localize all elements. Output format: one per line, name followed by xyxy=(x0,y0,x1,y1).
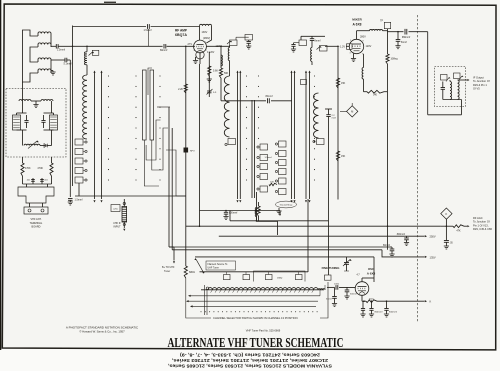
label -1.2V xyxy=(339,45,346,48)
tube V1 electrodes xyxy=(197,45,204,49)
svg-text:M: M xyxy=(351,110,353,114)
wire bank4 rail D xyxy=(308,71,310,203)
label RF AMP 6BQ7A xyxy=(175,29,188,37)
label IF output xyxy=(473,76,490,91)
capacitor C7 trap right xyxy=(41,113,53,130)
svg-text:R29 & Pin 1: R29 & Pin 1 xyxy=(473,83,487,87)
svg-text:5.6K: 5.6K xyxy=(213,70,218,73)
wire IF bottom bus xyxy=(428,32,462,115)
selector top bus xyxy=(200,271,309,273)
coil L4 balun winding 4 xyxy=(38,69,51,73)
wire bank1 rail A xyxy=(93,71,95,203)
coil L26 taps xyxy=(211,290,314,293)
svg-text:To Junction Of: To Junction Of xyxy=(473,79,490,83)
svg-text:R29, C45 & C86: R29, C45 & C86 xyxy=(473,227,492,231)
wire V1 plate to neut xyxy=(206,46,230,48)
wire neut link xyxy=(236,37,249,40)
resistor R4 5.6K xyxy=(208,66,219,76)
svg-text:TERMINAL: TERMINAL xyxy=(30,222,43,225)
contact dots column 1 xyxy=(108,75,109,180)
svg-text:30mmf: 30mmf xyxy=(350,294,357,296)
page scan tick top xyxy=(104,2,116,3)
switch contact A17 xyxy=(225,139,236,146)
coil L15 interstage xyxy=(221,55,222,66)
dashed separator line xyxy=(417,15,419,322)
resistor R3 2.2K xyxy=(178,84,187,93)
svg-text:ALTERNATE VHF TUNER SCHEMATIC: ALTERNATE VHF TUNER SCHEMATIC xyxy=(168,336,344,351)
selector contact dots row xyxy=(201,311,318,312)
wire bus y249.8 xyxy=(172,249,382,251)
wire bank4 rail B xyxy=(293,71,295,203)
svg-text:K: K xyxy=(430,300,432,304)
resistor R1 470K xyxy=(21,157,31,176)
svg-text:80mmf: 80mmf xyxy=(265,96,272,98)
switch contact A6 xyxy=(441,75,451,82)
wire bank2 rail A xyxy=(168,107,170,247)
resistor R9 15K lower xyxy=(336,151,345,161)
wire x328.5 vertical xyxy=(328,221,330,275)
svg-text:800mmf: 800mmf xyxy=(389,311,397,313)
coil L27 osc end xyxy=(318,285,325,290)
capacitor C14 2.2mmf xyxy=(325,109,336,221)
wire vertical x72.5 xyxy=(72,26,74,187)
contact dots column 4 xyxy=(246,75,247,180)
svg-text:VHF Tuner Part No. 525-0669: VHF Tuner Part No. 525-0669 xyxy=(246,329,281,333)
IF transformer dashed box xyxy=(435,67,466,107)
svg-text:1000: 1000 xyxy=(334,284,340,286)
switch S1A contact boxes xyxy=(75,139,87,183)
label 4.7 xyxy=(357,274,361,276)
wire V2 plate up xyxy=(356,31,358,40)
label photofact line1 xyxy=(66,326,139,330)
switch S2 contact boxes left column xyxy=(257,144,268,192)
wire main vertical x186 xyxy=(185,46,187,259)
capacitor C2 5.1mmf xyxy=(55,58,72,66)
svg-text:250V: 250V xyxy=(430,235,436,239)
svg-text:BOARD: BOARD xyxy=(32,226,41,229)
capacitor C18 800mmf fil xyxy=(223,211,237,220)
wire agc bus y226.2 xyxy=(186,225,441,227)
selector wiper xyxy=(205,285,209,315)
svg-text:680mmf: 680mmf xyxy=(402,37,411,39)
svg-text:8mmf: 8mmf xyxy=(315,40,321,43)
selector arrow 3 xyxy=(190,305,316,307)
switch contact A10 xyxy=(299,40,307,46)
svg-text:1.5mmf: 1.5mmf xyxy=(265,157,272,159)
capacitor C4 1.5mmf on agc bus xyxy=(144,24,152,47)
coil L18 plate choke xyxy=(200,24,212,43)
wire K to bus xyxy=(441,219,447,228)
wire mixer output y31.7 xyxy=(383,31,428,33)
coil L8 trap tank right xyxy=(50,115,58,130)
wire B+ UHF arrow xyxy=(169,247,175,264)
capacitor C26 600mmf xyxy=(360,301,365,317)
coil L17 osc ladder xyxy=(314,93,319,138)
trap dashed box xyxy=(6,89,66,158)
resistor R14 1000 osc xyxy=(362,295,432,303)
label filament source box xyxy=(206,261,236,270)
svg-text:−1.2V: −1.2V xyxy=(339,45,346,48)
svg-text:0 120V: 0 120V xyxy=(207,52,215,54)
svg-text:680Ω: 680Ω xyxy=(189,271,195,274)
svg-text:10K: 10K xyxy=(270,182,274,184)
svg-text:UHF IF: UHF IF xyxy=(113,222,121,225)
coil L19 neut xyxy=(228,46,229,70)
ground V1 cathode xyxy=(193,57,198,64)
svg-text:A 6X8: A 6X8 xyxy=(352,22,361,26)
tube V3 OSC 6X8 envelope xyxy=(355,282,369,296)
ground balun xyxy=(50,71,55,76)
capacitor C8 1000mmf cluster xyxy=(23,176,52,184)
wire trap verticals xyxy=(23,82,52,146)
page scan edge left xyxy=(0,0,1,350)
wire x221 with top coil xyxy=(220,46,222,69)
svg-text:.001: .001 xyxy=(44,179,48,181)
svg-text:5mmf: 5mmf xyxy=(326,299,332,301)
svg-text:OSC: OSC xyxy=(368,267,374,271)
ground trap center xyxy=(31,101,41,108)
wire IF out arrow xyxy=(458,79,470,81)
wire filament bus y210.5 xyxy=(200,211,282,217)
switch contact A26 xyxy=(224,272,231,280)
svg-text:B+ TO UHF: B+ TO UHF xyxy=(162,266,175,269)
pin numbers V2 xyxy=(350,40,365,56)
wire bus y247 xyxy=(169,246,390,248)
svg-text:FINE TUNING: FINE TUNING xyxy=(322,266,340,270)
test point TP box xyxy=(380,21,391,32)
svg-text:MIXER: MIXER xyxy=(352,18,362,22)
svg-text:NPO: NPO xyxy=(190,151,195,153)
wire bank4 rail A xyxy=(290,71,292,203)
capacitor C9 trimmer 3-9 xyxy=(207,89,217,95)
contact dots column 5 xyxy=(314,75,315,180)
label RF AGC xyxy=(473,216,492,231)
diode trap arrow xyxy=(40,144,52,148)
capacitor C5 1.5mmf bottom with ground xyxy=(68,199,83,206)
wire bank4 rail C xyxy=(305,71,307,203)
svg-text:180Ω: 180Ω xyxy=(277,278,283,280)
wire balun right taps xyxy=(51,36,55,71)
svg-text:8mmf: 8mmf xyxy=(401,42,407,44)
label sylvania models rotated xyxy=(167,352,332,369)
resistor R10 10Meg xyxy=(386,32,398,92)
capacitor C27 800mmf xyxy=(384,300,397,317)
coil L24 IF secondary xyxy=(458,80,460,100)
coil L6 trap top-right xyxy=(41,100,53,102)
label 120V V1 xyxy=(216,45,222,48)
coil L13 slab form left xyxy=(143,70,147,140)
label (280V) xyxy=(203,37,210,40)
wire osc K junction xyxy=(363,300,365,302)
svg-text:INPUT: INPUT xyxy=(113,226,121,229)
switch contact A4 xyxy=(313,139,324,145)
switch contact A28 xyxy=(266,272,283,280)
resistor R6 10K padder xyxy=(269,182,277,186)
wire UHF IF arrow xyxy=(123,222,125,231)
wire screen vertical x209 xyxy=(208,52,210,97)
tube V2 grid box xyxy=(347,44,353,50)
label 120V V2 xyxy=(366,45,372,48)
capacitor C17 IF xyxy=(441,82,445,100)
svg-text:1.5mmf: 1.5mmf xyxy=(57,49,65,52)
label 27V xyxy=(188,43,193,46)
capacitor C26b 800mmf xyxy=(369,300,383,317)
svg-text:280V: 280V xyxy=(360,36,366,39)
switch arm filament xyxy=(194,258,204,273)
node M diamond xyxy=(340,103,358,117)
capacitor C25 5mmf xyxy=(326,287,337,306)
selector arrow 2 xyxy=(186,300,318,302)
capacitor C11 neut xyxy=(246,40,251,49)
wire bank2 jogs xyxy=(144,68,186,196)
contact dots column 2 xyxy=(135,75,136,180)
wire y100.8 coupling xyxy=(221,100,292,102)
switch contact A19 small box xyxy=(301,80,307,85)
svg-text:RF AGC: RF AGC xyxy=(473,216,483,220)
wire rail x254.5 xyxy=(254,100,256,198)
wire bus y220.8 xyxy=(230,211,329,222)
switch S2 contact boxes right column xyxy=(275,141,286,195)
wire bank1 bottom xyxy=(75,183,186,196)
coil L7 trap tank left xyxy=(13,115,21,130)
thermistor blob xyxy=(184,148,196,153)
wire mixer grid bus xyxy=(325,46,350,48)
svg-text:Tuner: Tuner xyxy=(164,270,170,273)
resistor R2 470K xyxy=(37,157,53,176)
coil L9 trap bottom adjustable xyxy=(24,140,40,148)
svg-text:Of V5: Of V5 xyxy=(473,87,480,91)
svg-text:1.5mmf: 1.5mmf xyxy=(75,199,83,202)
capacitor C10 80mmf xyxy=(265,96,272,104)
selector box outline xyxy=(186,278,328,318)
contact dots column 3 xyxy=(159,75,160,180)
label UHF IF input xyxy=(113,222,121,229)
wire bank2 rail B xyxy=(171,128,173,250)
tube V1 6BQ7A envelope xyxy=(194,40,207,59)
node K diamond xyxy=(441,208,452,219)
wire x338 vertical xyxy=(337,46,339,199)
coil L16 mixer ladder xyxy=(224,69,229,137)
coil L1 balun winding 1 xyxy=(38,32,51,36)
svg-text:To Junction Of: To Junction Of xyxy=(473,220,490,224)
wire grid bus y46 xyxy=(58,46,194,48)
label 1.5mmf mid xyxy=(265,157,272,159)
label tuner part no xyxy=(246,329,281,333)
capacitor C15 680mmf series xyxy=(402,28,411,39)
capacitor C16 8mmf shunt xyxy=(395,32,407,49)
resistor R7 1000 xyxy=(255,202,260,221)
resistor R8 15K xyxy=(336,78,345,88)
svg-text:15K: 15K xyxy=(341,82,346,85)
label terminal board xyxy=(30,218,43,229)
wire inj top xyxy=(301,36,325,40)
svg-text:800mmf: 800mmf xyxy=(397,234,406,236)
svg-text:120V: 120V xyxy=(366,45,372,48)
svg-text:2.2K: 2.2K xyxy=(178,88,183,91)
wire mixer B+ down xyxy=(387,92,389,250)
svg-text:15K: 15K xyxy=(341,155,346,158)
wire rail x252 xyxy=(251,100,253,198)
wire vertical x70.3 xyxy=(67,60,71,197)
coil L2 balun winding 2 xyxy=(38,43,51,47)
svg-text:(25): (25) xyxy=(114,208,118,210)
svg-text:mmf: mmf xyxy=(332,118,337,120)
selector arrow 1 xyxy=(188,290,320,297)
resistor R11 540 xyxy=(364,90,388,96)
wire bank3 rail A xyxy=(236,71,238,203)
switch contact A15 xyxy=(454,73,464,80)
svg-text:27V: 27V xyxy=(188,43,193,46)
capacitor C23 1000 grid xyxy=(327,284,356,290)
wire agc bus y26.5 xyxy=(73,26,200,28)
label 280V V2 xyxy=(360,36,366,39)
label OSC A 6X8 xyxy=(367,267,376,276)
capacitor C3 80mmf on grid bus xyxy=(160,44,168,52)
ground strap symbol xyxy=(276,208,281,214)
coil L11 main RF ladder xyxy=(83,75,87,139)
svg-text:Pin 1 Of V13,: Pin 1 Of V13, xyxy=(473,223,489,227)
wire bus 135V xyxy=(382,250,436,259)
coil L10 top section xyxy=(84,46,87,75)
svg-text:56K: 56K xyxy=(224,72,229,75)
wire S2 left drop xyxy=(257,192,278,235)
svg-text:135V: 135V xyxy=(430,255,436,259)
svg-text:1000: 1000 xyxy=(369,298,375,300)
wire bank1 rail B xyxy=(100,71,102,203)
svg-text:1.5mmf: 1.5mmf xyxy=(144,29,152,32)
switch contact A29 xyxy=(296,272,303,280)
wire bus y236.2 xyxy=(219,235,436,239)
capacitor C21 .05 xyxy=(444,226,454,249)
svg-text:6BQ7A: 6BQ7A xyxy=(175,33,187,37)
svg-text:IF Output: IF Output xyxy=(473,76,484,80)
resistor R13 680 xyxy=(184,258,195,278)
label 0 120V xyxy=(207,52,215,54)
wire osc plate xyxy=(362,278,374,282)
label channel selector xyxy=(213,316,298,320)
svg-text:47K: 47K xyxy=(456,229,461,232)
switch contact A15 box xyxy=(89,50,99,55)
capacitor C6 trap left xyxy=(17,113,29,130)
svg-text:Ground Strap: Ground Strap xyxy=(280,204,293,207)
switch contact A18 xyxy=(245,35,253,41)
svg-text:800mmf: 800mmf xyxy=(375,311,383,313)
coil L26 oscillator winding xyxy=(201,288,324,290)
capacitor C12 inj xyxy=(291,43,299,52)
capacitor C19 800mmf 250V xyxy=(397,234,409,246)
tube V3 electrodes xyxy=(358,286,367,293)
svg-text:(280V): (280V) xyxy=(203,37,210,40)
ground strap oval xyxy=(276,201,297,208)
svg-text:VHF ANT.: VHF ANT. xyxy=(31,218,42,221)
capacitor C1 1.5mmf xyxy=(55,44,65,52)
wire osc feed y256.9 xyxy=(195,257,374,282)
svg-text:80mmf: 80mmf xyxy=(160,49,168,52)
title alternate vhf tuner schematic xyxy=(168,336,344,351)
capacitor C22 fine tuning xyxy=(343,257,352,271)
svg-text:.001: .001 xyxy=(26,179,30,181)
svg-text:SYLVANIA MODELS 21C501 Series,: SYLVANIA MODELS 21C501 Series, 21C503 Se… xyxy=(167,363,332,369)
coil L23 IF primary xyxy=(450,80,452,100)
coil L14 slab form right xyxy=(150,70,154,140)
svg-text:130V: 130V xyxy=(202,31,208,34)
svg-text:TP: TP xyxy=(380,21,383,23)
svg-text:470K: 470K xyxy=(37,167,43,170)
coil L5 trap top-left xyxy=(19,100,31,102)
svg-text:21C607 Series, 21T201 Series,: 21C607 Series, 21T201 Series, 21T301 Ser… xyxy=(171,357,328,363)
contact dots column 4b xyxy=(258,75,259,139)
svg-text:Filament Source To: Filament Source To xyxy=(208,263,228,266)
capacitor C24 30mmf xyxy=(344,287,357,299)
svg-text:CHANNEL SELECTOR SWITCH SHOWN: CHANNEL SELECTOR SWITCH SHOWN IN CHANNEL… xyxy=(213,316,298,320)
tube V2 electrodes xyxy=(352,44,361,51)
coil L22 mixer cathode xyxy=(362,54,363,92)
tube V2 6X8 envelope xyxy=(349,39,363,53)
switch contact A27 xyxy=(243,272,250,280)
resistor R5 56K xyxy=(219,68,228,101)
wire x308 vertical xyxy=(307,199,309,272)
wire bank3 rail B xyxy=(239,71,241,203)
wire top corner xyxy=(72,25,74,27)
wire balun left loop xyxy=(23,30,39,82)
label fine tuning xyxy=(322,266,340,270)
switch contact A11 xyxy=(317,46,328,52)
resistor R12 47K xyxy=(446,225,469,233)
coil L21 mixer plate xyxy=(357,29,383,30)
pin numbers V1 xyxy=(194,42,208,53)
svg-text:K: K xyxy=(446,212,448,216)
terminal board VHF ant xyxy=(18,184,54,214)
label 130V xyxy=(202,31,208,34)
capacitor C13 8mmf xyxy=(310,39,321,48)
switch contact A16 xyxy=(227,40,237,46)
svg-text:A 6X8: A 6X8 xyxy=(367,272,376,276)
capacitor C20 80mmf 135V xyxy=(383,245,395,257)
label MIXER A 6X8 xyxy=(352,18,362,27)
svg-text:470K: 470K xyxy=(25,167,31,170)
ground V2 xyxy=(351,54,356,62)
switch contact A5 xyxy=(325,275,332,280)
ground R4 xyxy=(207,76,212,82)
selector bracket xyxy=(254,271,306,282)
coil L20 injection xyxy=(311,48,312,66)
svg-text:24C603 Series, 24T201 Series (: 24C603 Series, 24T201 Series (Ch. 1-533-… xyxy=(180,352,320,358)
coil L25 filament choke xyxy=(225,208,257,221)
svg-text:UHF Tuner: UHF Tuner xyxy=(208,267,219,270)
coil L3 balun winding 3 xyxy=(38,58,51,62)
coil L12 UHF IF dark xyxy=(122,199,127,222)
tube V1 pin leads xyxy=(194,46,200,64)
svg-text:© Howard W. Sams & Co., Inc. 1: © Howard W. Sams & Co., Inc. 1957 xyxy=(79,330,125,334)
svg-text:10Meg: 10Meg xyxy=(391,59,399,61)
svg-text:80mmf: 80mmf xyxy=(383,245,390,247)
label photofact line2 xyxy=(79,330,125,334)
label B+ TO UHF xyxy=(162,266,175,273)
wire cathode vertical x199.5 xyxy=(199,64,201,226)
switch contact A25 xyxy=(111,205,120,212)
